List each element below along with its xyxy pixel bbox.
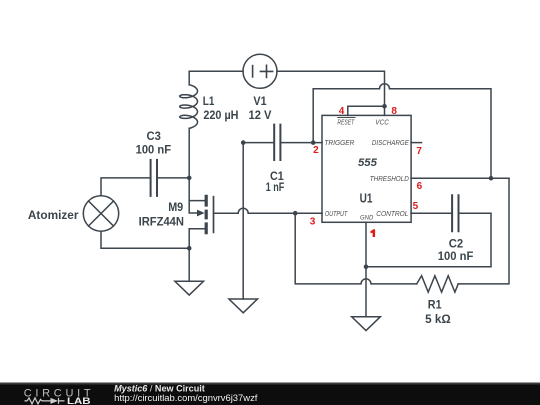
node C1 left junction [241,140,246,145]
wire OUTPUT drop and bottom run to R1 with hop over GND drop [295,213,417,284]
inductor L1 [180,85,198,129]
resistor R1 [417,276,459,292]
svg-text:VCC: VCC [375,117,389,126]
pin label RESET (overlined) [337,117,355,126]
wire DISCHARGE pin 7 stub [411,142,422,144]
capacitor C2 [452,195,458,231]
wire CONTROL pin 5 to C2 left plate [411,212,452,214]
wire atomizer bottom to source junction [101,231,189,248]
svg-text:R1: R1 [428,298,442,312]
ground under 555 [352,317,381,331]
svg-text:5: 5 [413,201,419,212]
wire GND junction down to ground [365,267,367,317]
wire C2 right plate loop to GND node [366,213,491,267]
wire C1 left plate to vertical branch [243,142,274,144]
svg-text:220 µH: 220 µH [203,108,238,122]
wire THRESHOLD pin 6 run [411,177,509,179]
svg-text:LAB: LAB [67,396,91,405]
svg-text:3: 3 [310,216,316,227]
wire L1 top to V1 left terminal [189,71,243,85]
capacitor C3 [151,160,157,196]
svg-text:5 kΩ: 5 kΩ [425,312,451,326]
svg-text:OUTPUT: OUTPUT [325,209,348,218]
svg-text:CONTROL: CONTROL [376,209,408,218]
IC U1 555 timer box [322,115,411,222]
svg-text:THRESHOLD: THRESHOLD [370,174,409,183]
node GND junction [364,265,369,270]
wire 555 GND pin 1 down [365,222,367,266]
footer bar [0,383,540,405]
svg-text:M9: M9 [168,200,183,214]
svg-text:4: 4 [339,106,345,117]
svg-text:Atomizer: Atomizer [28,208,79,222]
svg-text:100 nF: 100 nF [136,143,172,157]
wire C3 right plate to drain junction [157,177,189,179]
node TRIGGER junction [311,140,316,145]
wire L1 bottom to drain junction [188,128,190,178]
svg-text:12 V: 12 V [249,108,272,122]
svg-text:http://circuitlab.com/cgnvrv6j: http://circuitlab.com/cgnvrv6j37wzf [114,393,258,404]
svg-text:1 nF: 1 nF [266,180,285,194]
node RESET-VCC junction [382,104,387,109]
wire C1 right plate to TRIGGER pin 2 [280,142,322,144]
node C3-drain junction [187,176,192,181]
wire TRIGGER-to-THRESHOLD link with hop over VCC drop [313,84,491,179]
svg-text:C3: C3 [147,129,162,143]
svg-text:100 nF: 100 nF [438,249,474,263]
svg-text:8: 8 [391,106,397,117]
wire atomizer top to C3 left plate [101,178,151,196]
node OUTPUT junction [293,211,298,216]
wire RESET pin 4 stub [348,106,385,115]
svg-text:7: 7 [416,146,422,157]
svg-text:2: 2 [313,145,319,156]
wire source junction down to ground [188,248,190,281]
svg-text:V1: V1 [253,94,266,108]
wire gate to OUTPUT pin 3 with hop over C1 branch [214,208,322,213]
wire C1 branch down to ground [242,143,244,299]
node THRESHOLD junction [489,176,494,181]
svg-text:IRFZ44N: IRFZ44N [139,215,184,229]
svg-text:U1: U1 [360,192,373,206]
wire R1 right up to THRESHOLD run [458,178,509,284]
transistor M9 [189,178,213,248]
svg-text:DISCHARGE: DISCHARGE [372,138,410,147]
ground below C1 branch [229,299,258,313]
svg-text:RESET: RESET [337,117,355,126]
ground under MOSFET source [175,281,204,295]
svg-text:6: 6 [417,181,423,192]
wire VCC pin 8 stub [384,106,386,115]
svg-text:TRIGGER: TRIGGER [324,138,355,147]
pin number 1 [370,229,375,237]
svg-text:L1: L1 [203,94,215,108]
svg-text:555: 555 [358,157,378,169]
wire V1 right terminal to pin-8 drop [277,71,385,106]
svg-text:GND: GND [360,215,373,222]
CircuitLab logo [24,387,91,405]
lamp Atomizer [83,196,118,231]
capacitor C1 [274,125,280,160]
voltage source V1 [243,54,277,88]
node source junction [187,246,192,251]
